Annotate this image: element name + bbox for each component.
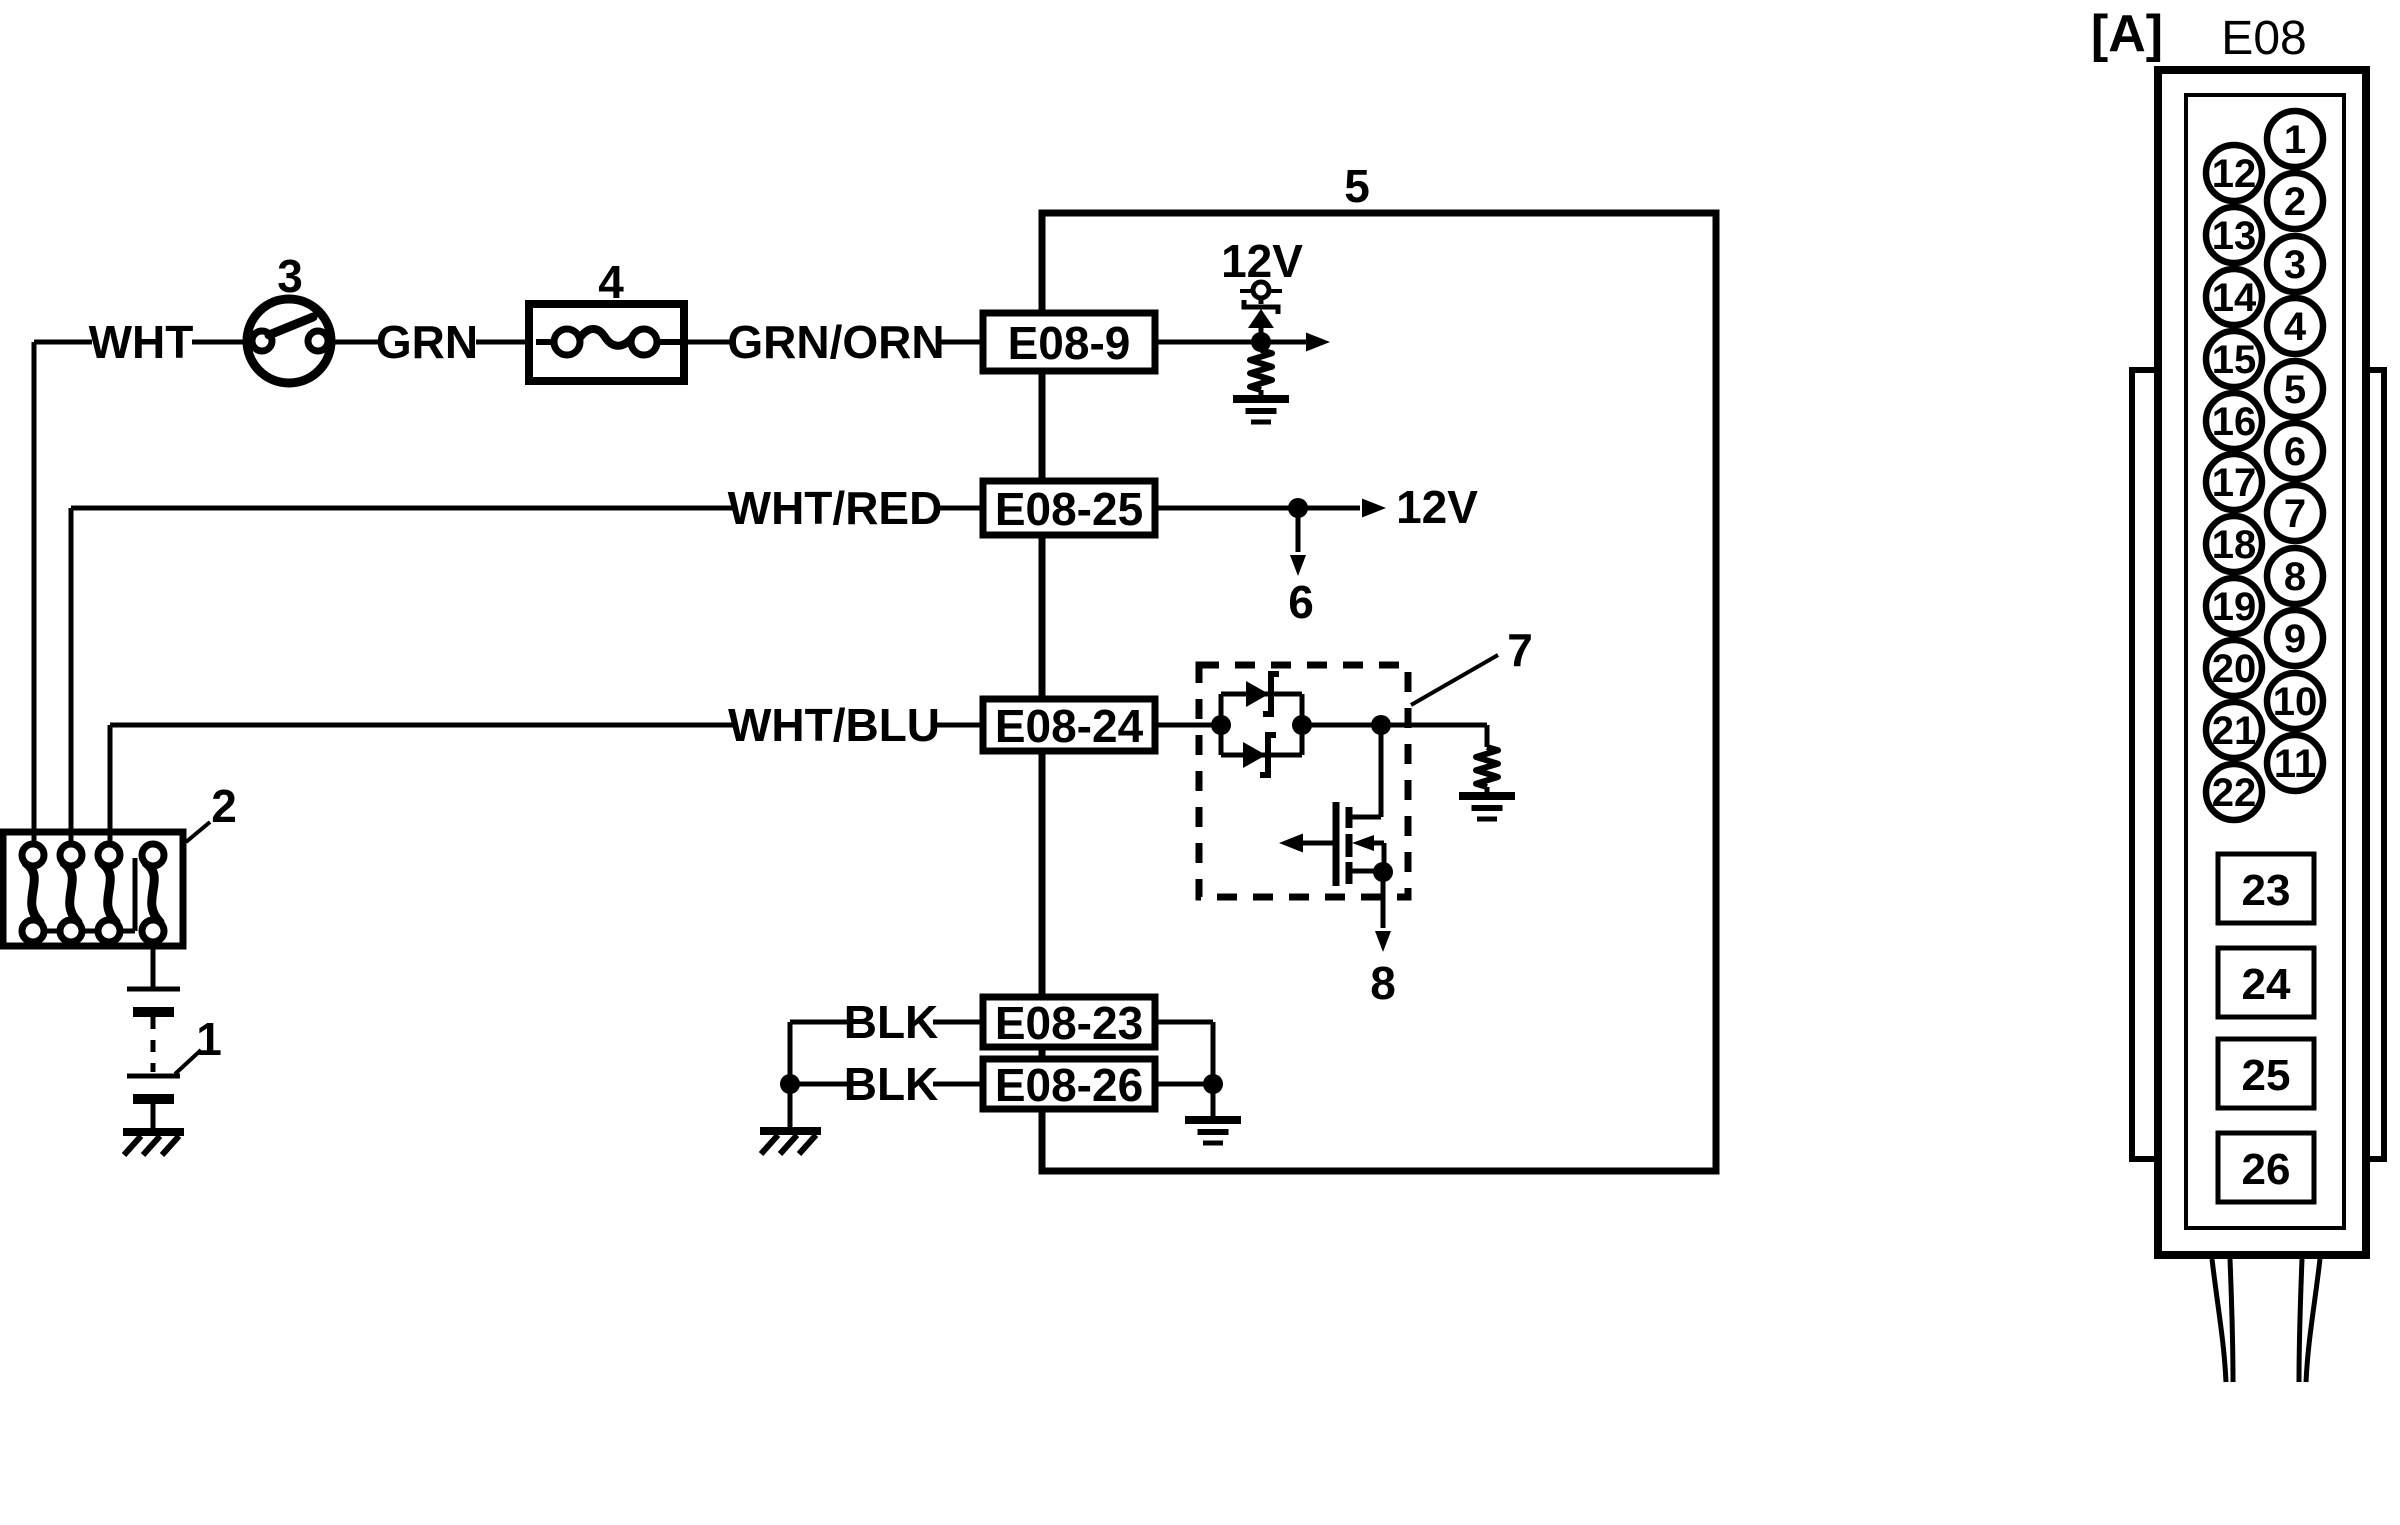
svg-text:15: 15	[2212, 338, 2257, 382]
svg-text:7: 7	[1507, 624, 1533, 676]
wire diodes to node	[1302, 723, 1381, 728]
ground row1	[1233, 395, 1289, 403]
svg-text:23: 23	[2242, 866, 2291, 915]
svg-text:BLK: BLK	[844, 996, 939, 1048]
svg-text:10: 10	[2273, 680, 2318, 724]
pin 10	[2267, 673, 2323, 729]
connector pin circles	[98, 844, 120, 866]
svg-text:5: 5	[1344, 160, 1370, 212]
svg-text:19: 19	[2212, 585, 2257, 629]
pin 2	[2267, 173, 2323, 229]
pin 6	[2267, 423, 2323, 479]
body arrow	[1352, 835, 1374, 851]
pin 24	[2218, 948, 2314, 1017]
pin 18	[2206, 516, 2262, 572]
svg-text:WHT/BLU: WHT/BLU	[728, 699, 940, 751]
diode pair branch	[1211, 715, 1231, 735]
connector pin box E08-9	[983, 313, 1155, 371]
wire WHT/RED left vertical	[69, 508, 74, 845]
svg-text:GRN: GRN	[376, 316, 478, 368]
svg-text:WHT/RED: WHT/RED	[728, 482, 943, 534]
svg-text:7: 7	[2284, 492, 2306, 536]
pin 14	[2206, 269, 2262, 325]
battery 1	[151, 942, 156, 987]
connector pin circles	[22, 844, 44, 866]
wire node to resistor corner	[1381, 723, 1487, 728]
connector pin box E08-25	[983, 481, 1155, 535]
wire GRN to fuse	[476, 340, 529, 345]
wire fuse to GRN/ORN	[684, 340, 731, 345]
switch curve	[102, 863, 116, 922]
bottom links	[44, 929, 60, 934]
svg-text:WHT: WHT	[89, 316, 194, 368]
switch curve	[26, 863, 40, 922]
leader to 2	[186, 822, 210, 842]
svg-text:22: 22	[2212, 771, 2257, 815]
connector pin box E08-24	[983, 699, 1155, 751]
wire WHT/RED horizontal	[71, 506, 734, 511]
svg-text:E08-23: E08-23	[995, 997, 1143, 1049]
arrow down to 8	[1381, 872, 1386, 928]
svg-text:12: 12	[2212, 152, 2257, 196]
zener diode top	[1246, 681, 1269, 707]
pin 1	[2267, 111, 2323, 167]
wire WHT to switch	[192, 340, 249, 345]
wire WHT left vertical	[32, 342, 37, 845]
pin 15	[2206, 331, 2262, 387]
pin 21	[2206, 702, 2262, 758]
svg-text:17: 17	[2212, 461, 2257, 505]
pin 19	[2206, 578, 2262, 634]
svg-text:E08: E08	[2221, 12, 2306, 65]
dashed protection box 7	[1199, 665, 1408, 897]
svg-text:4: 4	[2284, 305, 2307, 349]
pin 3	[2267, 236, 2323, 292]
wire GRN/ORN to E08-9	[940, 340, 983, 345]
svg-text:BLK: BLK	[844, 1058, 939, 1110]
svg-text:26: 26	[2242, 1145, 2291, 1194]
wire WHT horizontal	[34, 340, 92, 345]
wire to E08-24	[932, 723, 983, 728]
ECU box 5	[1042, 213, 1716, 1171]
svg-text:GRN/ORN: GRN/ORN	[727, 316, 944, 368]
wire E08-9 to node	[1155, 340, 1252, 345]
switch curve	[64, 863, 78, 922]
left ground drop	[788, 1022, 793, 1127]
pin 16	[2206, 393, 2262, 449]
switch curve	[146, 863, 160, 922]
svg-text:E08-24: E08-24	[995, 700, 1144, 752]
pin 12	[2206, 145, 2262, 201]
svg-text:2: 2	[2284, 180, 2306, 224]
pin 26	[2218, 1133, 2314, 1202]
svg-text:2: 2	[211, 780, 237, 832]
wire E08-24 into dashed box	[1155, 723, 1221, 728]
chassis ground battery	[123, 1128, 184, 1136]
ground row3	[1459, 792, 1515, 800]
wires right of E08-23/26 to ground	[1155, 1020, 1213, 1025]
connector pin circles	[60, 844, 82, 866]
chassis ground left of E08-26	[760, 1127, 821, 1135]
connector E08 wing	[2132, 370, 2384, 1159]
wire WHT/BLU left vertical	[108, 725, 113, 845]
svg-text:8: 8	[1370, 957, 1396, 1009]
switch 3	[247, 299, 331, 383]
svg-text:6: 6	[1288, 576, 1314, 628]
pin 11	[2267, 735, 2323, 791]
svg-text:13: 13	[2212, 214, 2257, 258]
svg-text:9: 9	[2284, 617, 2306, 661]
earth ground right	[1185, 1116, 1241, 1124]
svg-text:20: 20	[2212, 647, 2257, 691]
svg-text:16: 16	[2212, 400, 2257, 444]
wire switch to GRN	[330, 340, 378, 345]
svg-text:12V: 12V	[1221, 235, 1303, 287]
svg-text:21: 21	[2212, 709, 2257, 753]
svg-text:E08-26: E08-26	[995, 1059, 1143, 1111]
MOSFET 8 driver	[1379, 725, 1384, 817]
source junction	[1350, 869, 1384, 874]
resistor row1	[1259, 342, 1264, 350]
junction node row2	[1288, 498, 1308, 518]
resistor row3	[1476, 747, 1498, 787]
wire BLK bottom	[790, 1082, 847, 1087]
pin 17	[2206, 454, 2262, 510]
pin 23	[2218, 854, 2314, 923]
wire to E08-25	[934, 506, 983, 511]
svg-text:11: 11	[2274, 742, 2316, 786]
connector E08 inner	[2186, 95, 2344, 1228]
pin 8	[2267, 548, 2323, 604]
arrow to 12V	[1298, 506, 1360, 511]
svg-text:8: 8	[2284, 555, 2306, 599]
pin 20	[2206, 640, 2262, 696]
pin 9	[2267, 610, 2323, 666]
svg-text:3: 3	[277, 250, 303, 302]
svg-text:E08-25: E08-25	[995, 483, 1143, 535]
wire E08-25 to node	[1155, 506, 1298, 511]
svg-text:6: 6	[2284, 430, 2306, 474]
pin 5	[2267, 361, 2323, 417]
junction node row3	[1371, 715, 1391, 735]
svg-text:5: 5	[2284, 368, 2306, 412]
pin 22	[2206, 764, 2262, 820]
arrow down to 6	[1296, 508, 1301, 552]
junction node row1	[1251, 332, 1271, 352]
gate lead arrow	[1302, 841, 1333, 846]
connector pin box E08-23	[983, 997, 1155, 1047]
connector pin circles	[142, 844, 164, 866]
arrow right row1	[1261, 340, 1306, 345]
pin 25	[2218, 1039, 2314, 1108]
svg-text:1: 1	[2284, 118, 2306, 162]
pin 13	[2206, 207, 2262, 263]
wire WHT/BLU horizontal	[110, 723, 734, 728]
connector block 2	[3, 832, 183, 946]
leader to 7	[1411, 655, 1498, 705]
pin 4	[2267, 298, 2323, 354]
svg-text:1: 1	[196, 1013, 222, 1065]
zener diode bottom	[1243, 742, 1266, 768]
svg-text:3: 3	[2284, 243, 2306, 287]
svg-text:4: 4	[598, 256, 624, 308]
connector pin box E08-26	[983, 1059, 1155, 1109]
connector E08 body	[2158, 70, 2366, 1255]
zener diode	[1244, 300, 1278, 314]
svg-text:E08-9: E08-9	[1008, 317, 1131, 369]
svg-text:[A]: [A]	[2091, 5, 2163, 63]
svg-text:12V: 12V	[1396, 481, 1478, 533]
wire BLK top	[790, 1020, 847, 1025]
leader to 1	[175, 1050, 201, 1074]
pin 7	[2267, 485, 2323, 541]
svg-text:14: 14	[2212, 276, 2257, 320]
svg-text:25: 25	[2242, 1051, 2291, 1100]
svg-text:18: 18	[2212, 523, 2257, 567]
connector wires bottom	[2212, 1259, 2226, 1382]
fuse 4	[529, 304, 684, 381]
svg-text:24: 24	[2242, 960, 2291, 1009]
